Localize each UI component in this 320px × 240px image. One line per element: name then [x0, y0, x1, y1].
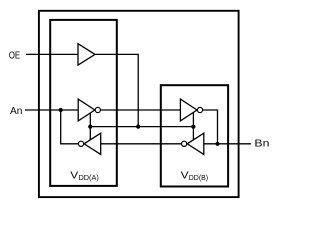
buffer OE (non-inverting) [78, 44, 95, 65]
inverter A-side B-to-A (points left) [84, 133, 101, 154]
box VDD(B) supply domain [161, 85, 228, 186]
wire enable vertical (B side) [192, 112, 194, 143]
wire enable vertical (A side) [89, 112, 91, 143]
junction dot enable B-side [191, 125, 195, 129]
svg-text:Bn: Bn [254, 138, 269, 150]
box VDD(A) supply domain [50, 20, 117, 186]
wire An keeper branch [61, 110, 79, 144]
inverter B-side A-to-B [180, 99, 197, 121]
junction dot enable center [136, 125, 140, 129]
wire OE buffer output to enable node [95, 54, 139, 126]
svg-text:OE: OE [9, 49, 20, 61]
wire OE input [26, 53, 79, 55]
wire An input [25, 109, 79, 111]
wire B buffer output down to Bn node [203, 110, 218, 144]
junction dot An branch [59, 108, 63, 112]
svg-text:DD(B): DD(B) [189, 173, 208, 182]
inverter A-side A-to-B [78, 99, 95, 121]
bubble of B-side B-to-A inverter [182, 141, 187, 146]
bubble of A-side B-to-A inverter [78, 141, 83, 146]
junction dot enable A-side [88, 125, 92, 129]
outer box [39, 11, 239, 197]
inverter B-side B-to-A (points left) [187, 133, 204, 154]
svg-text:DD(A): DD(A) [79, 173, 99, 182]
bubble of B-side A-to-B inverter [197, 107, 202, 112]
bubble of A-side A-to-B inverter [95, 107, 100, 112]
svg-text:V: V [181, 170, 189, 182]
junction dot Bn node [215, 142, 219, 146]
wire Bn output [203, 143, 251, 145]
svg-text:An: An [10, 105, 23, 117]
wire enable horizontal rail [90, 126, 193, 128]
wire B-to-A data [100, 143, 181, 145]
wire A-to-B data [100, 109, 181, 111]
svg-text:V: V [70, 170, 78, 182]
